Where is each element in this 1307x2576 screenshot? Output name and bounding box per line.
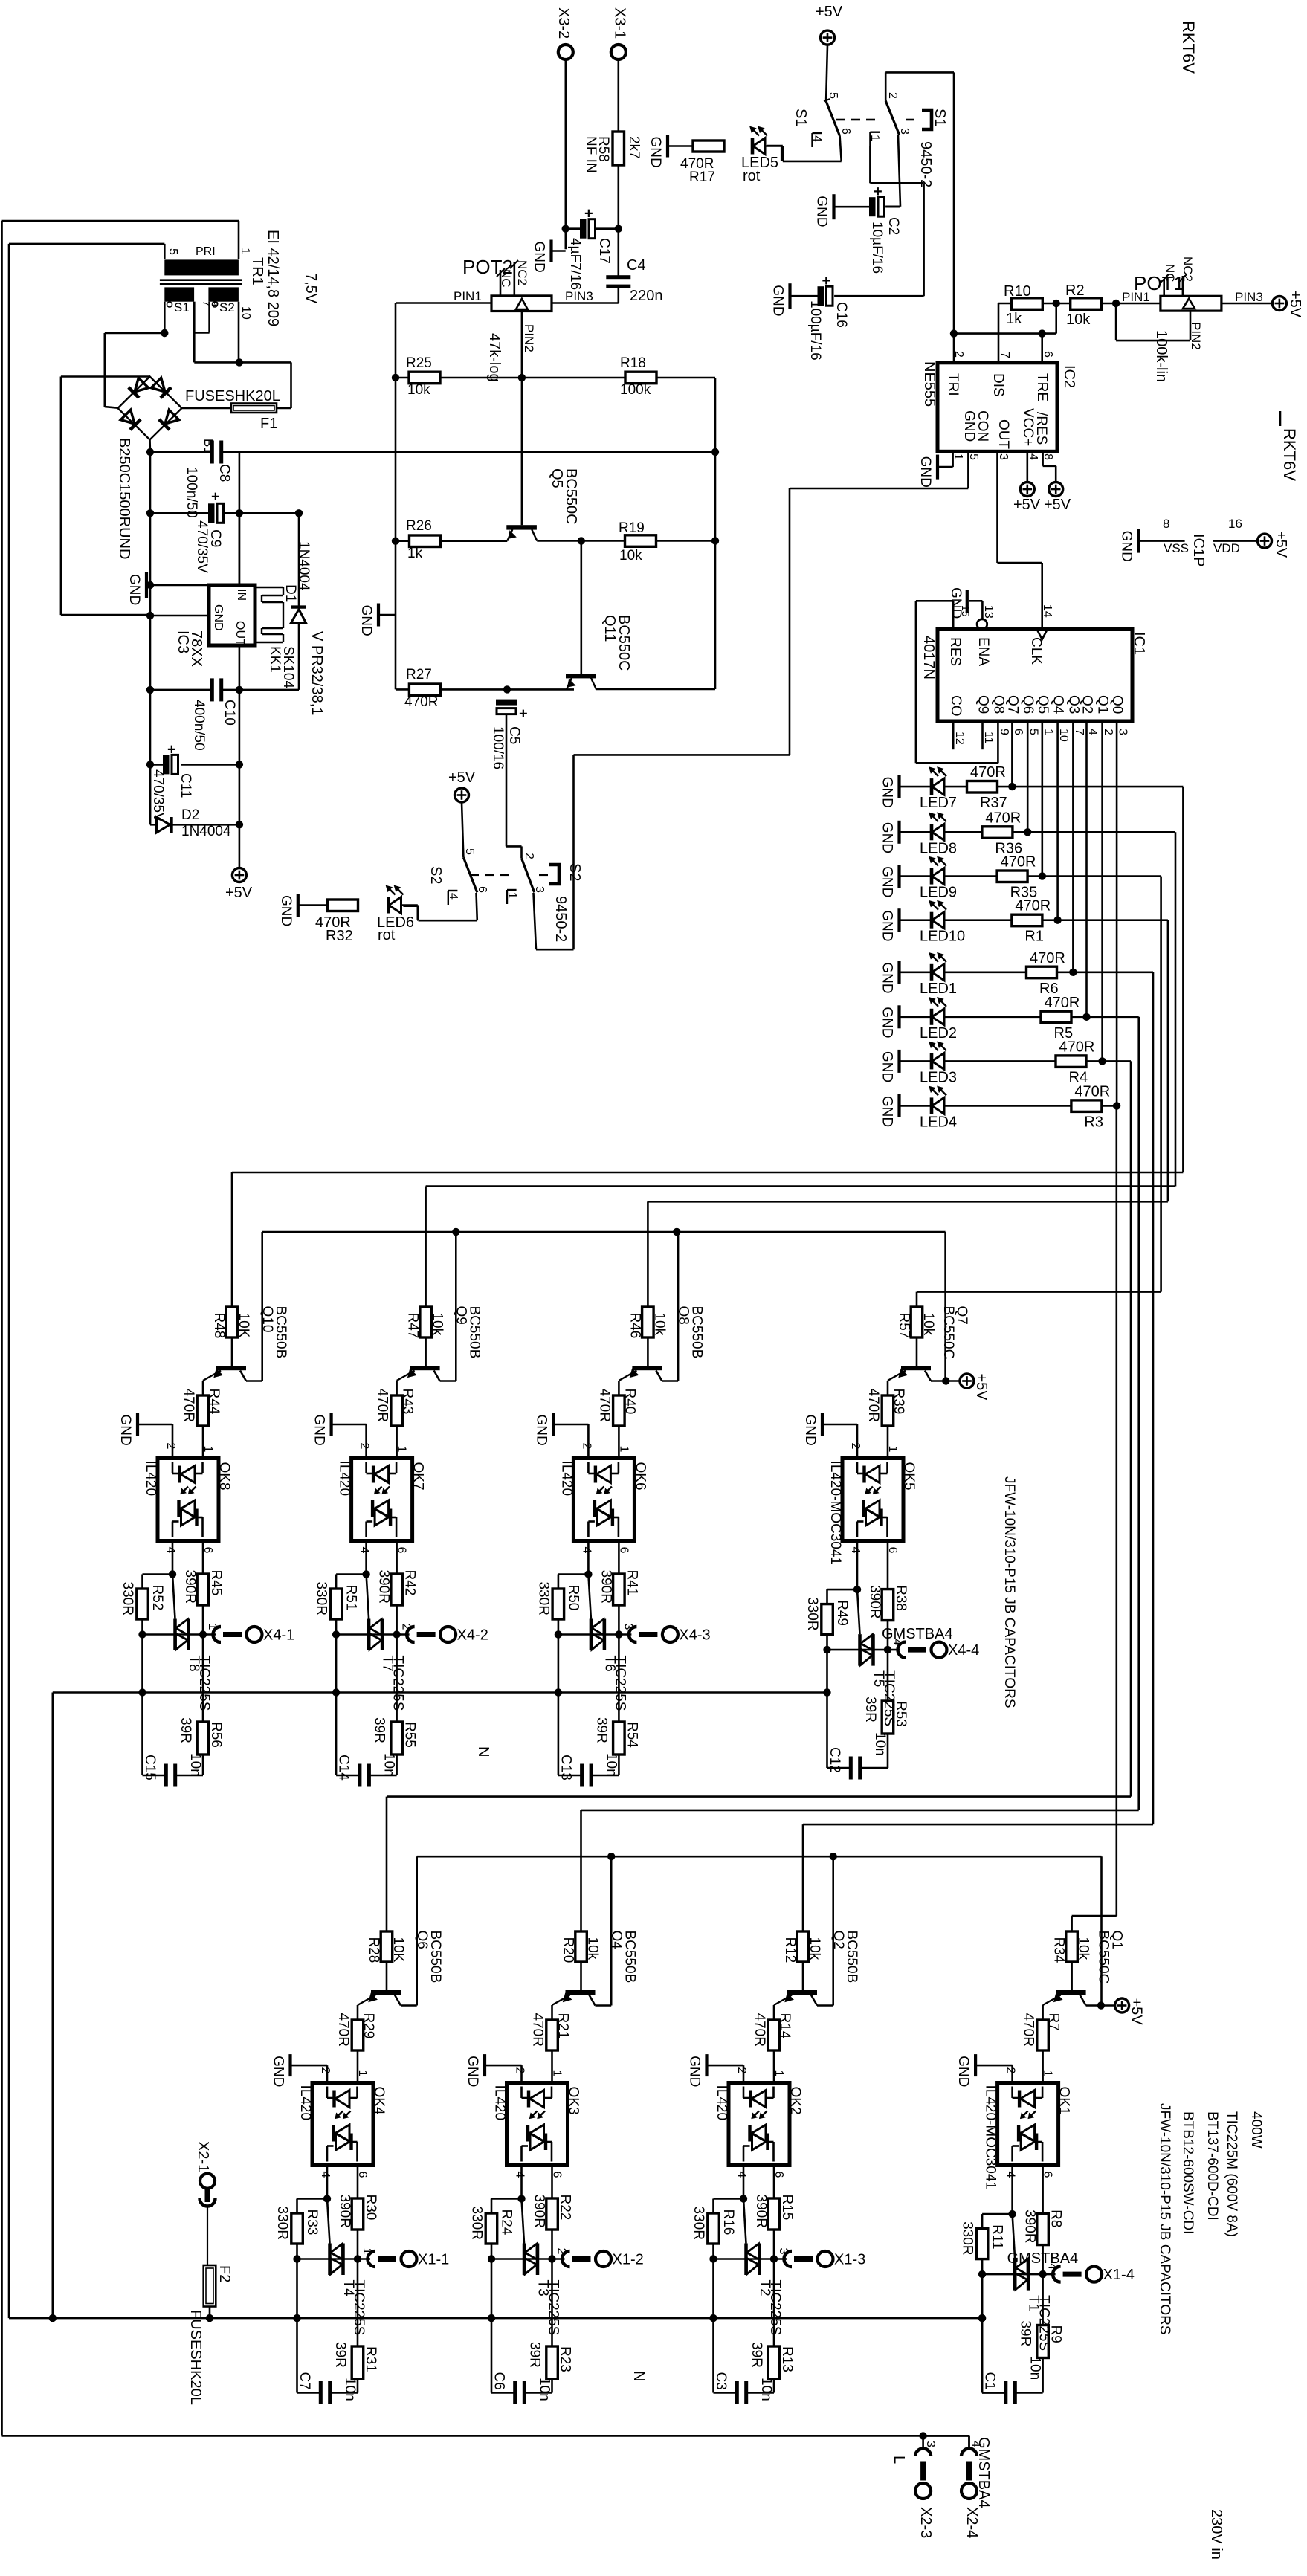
ground (549, 240, 552, 262)
svg-text:15: 15 (960, 605, 972, 617)
svg-text:5: 5 (167, 248, 179, 255)
resistor R22 390R (551, 2166, 553, 2199)
svg-text:GND: GND (770, 285, 786, 316)
optocoupler OK3 IL420 (507, 2083, 568, 2166)
svg-text:GND: GND (212, 604, 225, 631)
svg-text:10k: 10k (585, 1937, 601, 1960)
svg-text:330R: 330R (691, 2207, 706, 2240)
svg-text:10µF/16: 10µF/16 (869, 222, 885, 274)
svg-text:1: 1 (617, 1446, 630, 1453)
svg-text:2: 2 (164, 1443, 177, 1450)
svg-text:230V in: 230V in (1208, 2509, 1224, 2560)
svg-text:LED1: LED1 (920, 981, 957, 997)
svg-text:470R: 470R (530, 2013, 546, 2047)
resistor R24 330R (491, 2198, 522, 2200)
svg-text:330R: 330R (120, 1582, 135, 1615)
svg-text:2: 2 (1102, 729, 1114, 735)
triac T1 TIC225S (978, 2270, 986, 2278)
regulator IC3 78XX (150, 584, 209, 587)
svg-text:S1: S1 (793, 109, 809, 126)
ground (897, 1050, 900, 1073)
svg-text:1N4004: 1N4004 (296, 541, 312, 591)
resistor R7 470R (1037, 2020, 1049, 2050)
svg-text:R12: R12 (782, 1937, 798, 1963)
svg-text:10K: 10K (390, 1937, 406, 1963)
svg-text:BC550B: BC550B (467, 1306, 483, 1359)
ground (297, 894, 300, 917)
optocoupler OK7 IL420 (352, 1459, 413, 1541)
svg-text:1k: 1k (407, 546, 423, 561)
GND at IC2 pin1 (952, 452, 954, 468)
IC1 ENA inversion bubble + pin13 GND (977, 619, 987, 630)
switch S1 pole B (885, 71, 954, 74)
svg-text:R38: R38 (893, 1585, 909, 1611)
wire IC1 pin 6 (1011, 721, 1013, 787)
svg-text:C2: C2 (885, 217, 901, 235)
wire IC1 pin 5 (1027, 721, 1029, 832)
svg-text:C7: C7 (297, 2372, 312, 2390)
svg-text:GND: GND (532, 242, 547, 273)
resistor R45 390R (202, 1541, 204, 1575)
svg-text:2: 2 (1004, 2067, 1017, 2074)
diode D2 1N4004 (149, 764, 152, 824)
svg-text:39R: 39R (178, 1717, 193, 1743)
optocoupler OK8 IL420 (158, 1459, 219, 1541)
svg-text:R43: R43 (400, 1389, 416, 1415)
svg-text:rot: rot (378, 927, 396, 943)
svg-text:470R: 470R (865, 1389, 881, 1422)
resistor R19 10k (581, 540, 625, 542)
svg-text:X1-3: X1-3 (834, 2252, 865, 2268)
svg-text:470R: 470R (1059, 1039, 1095, 1055)
svg-text:10K: 10K (236, 1313, 251, 1338)
svg-text:C11: C11 (178, 773, 193, 798)
svg-text:X4-3: X4-3 (679, 1627, 710, 1644)
svg-text:C10: C10 (222, 700, 237, 726)
resistor R28 10k (381, 1931, 393, 1962)
svg-text:JFW-10N/310-P15 JB CAPACITORS: JFW-10N/310-P15 JB CAPACITORS (1157, 2103, 1172, 2335)
wire IC1 pin 10 (1056, 721, 1059, 920)
svg-text:39R: 39R (862, 1697, 878, 1723)
svg-text:9: 9 (998, 729, 1010, 735)
svg-text:Q3: Q3 (1065, 695, 1081, 714)
svg-text:GND: GND (533, 1415, 549, 1446)
svg-text:C1: C1 (982, 2372, 998, 2390)
svg-text:2: 2 (580, 1443, 593, 1450)
wire IC2 pin2 TRI (950, 329, 958, 337)
svg-text:NC: NC (499, 269, 513, 288)
svg-text:+5V: +5V (816, 4, 843, 20)
resistor R25 10k (392, 374, 399, 381)
svg-text:1: 1 (356, 2070, 369, 2077)
svg-text:TIC225M (600V 8A): TIC225M (600V 8A) (1224, 2111, 1239, 2237)
bus wire LED10 to channel3 R46 (1167, 920, 1169, 1202)
transistor Q8 BC550B (632, 1366, 662, 1370)
svg-text:R21: R21 (555, 2013, 571, 2039)
resistor R16 330R (714, 2198, 744, 2200)
svg-text:+: + (874, 184, 882, 200)
svg-text:R9: R9 (1048, 2325, 1064, 2343)
svg-text:NE555: NE555 (921, 361, 938, 407)
svg-text:GND: GND (955, 2056, 971, 2087)
optocoupler OK2 IL420 (729, 2083, 790, 2166)
wire R10/R2 junction to pin6 (1055, 303, 1057, 334)
capacitor C4 220n (606, 275, 630, 279)
svg-text:FUSESHK20L: FUSESHK20L (187, 2310, 204, 2405)
wire LED8 to bus x=1581.0 (1027, 831, 1175, 833)
svg-text:X4-4: X4-4 (948, 1642, 979, 1659)
collector bus middle band (262, 1231, 946, 1233)
svg-text:NC2: NC2 (1181, 256, 1195, 282)
wire LED2 to bus x=1531.7 (1087, 1016, 1139, 1019)
svg-text:S2: S2 (427, 866, 444, 884)
svg-text:R20: R20 (561, 1937, 576, 1963)
svg-text:R32: R32 (326, 928, 353, 944)
svg-text:X4-1: X4-1 (263, 1627, 294, 1644)
svg-text:4: 4 (1004, 2172, 1017, 2178)
svg-text:+5V: +5V (448, 769, 476, 786)
svg-text:330R: 330R (274, 2207, 290, 2240)
svg-text:390R: 390R (598, 1570, 613, 1604)
optocoupler OK5 IL420-MOC3041 (842, 1459, 903, 1541)
svg-text:R46: R46 (627, 1313, 642, 1339)
svg-text:39R: 39R (593, 1717, 609, 1743)
ground (897, 775, 900, 798)
svg-text:V PR32/38,1: V PR32/38,1 (309, 631, 325, 715)
svg-text:10k: 10k (807, 1937, 822, 1960)
svg-text:2: 2 (735, 2067, 748, 2074)
S2 unconnected pin 4 stub (448, 891, 449, 905)
svg-text:10k: 10k (1066, 311, 1091, 328)
svg-text:470R: 470R (375, 1389, 390, 1422)
svg-text:R3: R3 (1084, 1114, 1103, 1130)
svg-text:GND: GND (278, 895, 294, 926)
svg-text:LED8: LED8 (920, 840, 957, 856)
svg-text:4: 4 (447, 893, 459, 900)
svg-text:BC550B: BC550B (688, 1306, 704, 1359)
svg-text:VDD: VDD (1213, 541, 1240, 555)
svg-text:+: + (211, 488, 220, 505)
resistor R11 330R (982, 2213, 1013, 2215)
svg-text:10k: 10k (1076, 1937, 1091, 1960)
svg-text:4: 4 (580, 1547, 593, 1554)
svg-text:9: 9 (210, 301, 220, 306)
resistor R41 390R (618, 1541, 620, 1575)
svg-text:3: 3 (898, 128, 911, 135)
svg-text:C4: C4 (627, 257, 646, 274)
svg-text:3: 3 (533, 886, 546, 893)
heatsink KK1 (256, 587, 283, 588)
svg-text:GND: GND (117, 1415, 133, 1446)
svg-text:470/35V: 470/35V (150, 769, 166, 822)
svg-text:GND: GND (358, 605, 374, 636)
svg-text:IL420: IL420 (143, 1461, 158, 1497)
snubber R56 39R + C15 (202, 1635, 204, 1723)
S1 unconnected pin 4 stub (812, 0, 813, 1)
svg-text:Q5: Q5 (1035, 695, 1051, 714)
svg-text:39R: 39R (372, 1717, 387, 1743)
svg-text:10k: 10k (651, 1313, 667, 1336)
svg-text:R34: R34 (1051, 1937, 1067, 1963)
svg-text:OK3: OK3 (566, 2087, 581, 2115)
svg-text:PRI: PRI (196, 245, 216, 258)
svg-text:+: + (822, 273, 831, 289)
wire OK2 pin4 (743, 2166, 745, 2199)
capacitor C8 (146, 448, 154, 456)
wire TR1 pin5 to N bus (left border inner) (8, 244, 10, 2318)
snubber R13 39R + C3 (773, 2259, 775, 2347)
potentiometer POT1 100k-lin (1161, 296, 1222, 311)
svg-text:39R: 39R (527, 2342, 543, 2368)
resistor R2 10k (1056, 303, 1071, 305)
wire OK8 pin4 (172, 1541, 174, 1575)
resistor R43 470R (391, 1395, 403, 1426)
svg-text:390R: 390R (867, 1585, 882, 1618)
svg-text:4: 4 (164, 1547, 177, 1554)
svg-text:Q5: Q5 (549, 468, 565, 488)
+5V supply symbol (821, 30, 835, 45)
ground (897, 908, 900, 932)
resistor R29 470R (352, 2020, 364, 2050)
+5V supply symbol (1272, 297, 1286, 311)
snubber R53 39R + C12 (887, 1650, 889, 1701)
svg-text:4: 4 (849, 1547, 862, 1554)
svg-text:78XX: 78XX (188, 630, 204, 667)
svg-text:2: 2 (952, 351, 965, 358)
bus wire LED4 to channel8 R34 (1116, 1105, 1118, 1916)
svg-text:BTB12-600SW-CDI: BTB12-600SW-CDI (1180, 2111, 1195, 2234)
resistor R44 470R (197, 1395, 209, 1426)
svg-text:IL420: IL420 (558, 1461, 574, 1497)
svg-text:IL420: IL420 (297, 2085, 313, 2121)
svg-text:GND: GND (814, 196, 830, 227)
svg-text:VCC+: VCC+ (1020, 408, 1036, 446)
resistor R57 10k (911, 1307, 923, 1337)
svg-text:4: 4 (1027, 453, 1039, 460)
optocoupler OK4 IL420 (312, 2083, 373, 2166)
svg-text:IL420: IL420 (337, 1461, 352, 1497)
svg-text:R37: R37 (980, 795, 1007, 811)
svg-text:KK1: KK1 (267, 646, 283, 673)
svg-text:PIN3: PIN3 (1235, 290, 1263, 304)
snubber R9 39R + C1 (1042, 2274, 1044, 2325)
svg-text:470R: 470R (970, 764, 1006, 781)
IC1 RES pin15 loop to Q8 pin9 (952, 601, 955, 629)
svg-text:470R: 470R (752, 2013, 767, 2047)
svg-text:Q0: Q0 (1109, 695, 1125, 714)
svg-text:OK8: OK8 (216, 1462, 232, 1491)
svg-text:10n: 10n (603, 1753, 619, 1777)
svg-text:R23: R23 (558, 2346, 573, 2372)
svg-text:LED9: LED9 (920, 885, 957, 901)
svg-text:GND: GND (880, 1051, 895, 1082)
wire Q11 collector (596, 688, 715, 691)
wire OK5 pin4 (856, 1541, 859, 1590)
svg-text:BC550B: BC550B (622, 1931, 638, 1983)
svg-text:C8: C8 (216, 464, 232, 482)
svg-text:DIS: DIS (990, 373, 1006, 397)
ground (897, 1094, 900, 1117)
svg-text:IC1: IC1 (1131, 632, 1147, 655)
svg-text:R31: R31 (363, 2346, 378, 2372)
svg-text:2k7: 2k7 (626, 136, 642, 159)
svg-text:Q8: Q8 (990, 695, 1006, 714)
svg-text:+: + (167, 741, 176, 758)
wire IC1 pin 3 (1116, 721, 1118, 1105)
svg-text:390R: 390R (337, 2195, 352, 2228)
svg-text:GND: GND (880, 1007, 895, 1038)
transistor Q6 BC550B (371, 1990, 401, 1995)
svg-text:390R: 390R (182, 1570, 198, 1604)
svg-text:1: 1 (551, 2070, 564, 2077)
svg-text:IL420-MOC3041: IL420-MOC3041 (827, 1461, 843, 1565)
svg-text:Q9: Q9 (975, 695, 991, 714)
svg-text:IC2: IC2 (1061, 365, 1077, 388)
wire TR1 secondary pin6 to bridge (164, 302, 166, 333)
svg-text:N: N (475, 1746, 491, 1757)
svg-text:10k: 10k (619, 548, 642, 564)
svg-text:IC1P: IC1P (1190, 534, 1207, 566)
svg-text:470R: 470R (404, 694, 438, 710)
N bus middle band (53, 1691, 827, 1694)
svg-text:CLK: CLK (1028, 637, 1044, 665)
svg-text:GND: GND (917, 456, 933, 488)
svg-text:S2: S2 (219, 300, 235, 314)
svg-text:LED7: LED7 (920, 795, 957, 811)
svg-text:10: 10 (1057, 729, 1070, 742)
svg-text:TIC225S: TIC225S (196, 1656, 212, 1711)
+5V supply symbol (232, 868, 246, 882)
svg-text:R39: R39 (891, 1389, 906, 1415)
svg-text:R41: R41 (624, 1570, 639, 1596)
S1 pin1 wire to C16 (869, 146, 871, 183)
L line bottom (2, 2435, 969, 2437)
ground (330, 1413, 333, 1436)
svg-text:390R: 390R (532, 2195, 547, 2228)
svg-text:C14: C14 (336, 1755, 352, 1781)
svg-text:R55: R55 (402, 1722, 418, 1748)
bus wire LED2 to channel6 R21 (1137, 1017, 1140, 1810)
svg-text:R30: R30 (363, 2195, 378, 2221)
wire OK1 pin4 (1011, 2166, 1013, 2215)
svg-text:10k: 10k (920, 1313, 936, 1336)
svg-text:10n: 10n (342, 2378, 358, 2401)
svg-text:TR1: TR1 (249, 257, 265, 285)
svg-text:4017N: 4017N (920, 636, 937, 679)
svg-text:GND: GND (880, 910, 895, 941)
svg-text:+: + (584, 206, 593, 222)
svg-text:R19: R19 (619, 520, 645, 536)
svg-text:R53: R53 (893, 1701, 909, 1727)
bus wire LED8 to channel2 R47 (1175, 832, 1177, 1186)
IC1 4017N box (938, 630, 1132, 722)
svg-text:470R: 470R (181, 1389, 196, 1422)
svg-text:+5V: +5V (973, 1374, 990, 1401)
svg-text:R29: R29 (361, 2013, 376, 2039)
svg-text:11: 11 (982, 732, 995, 744)
svg-text:BC550C: BC550C (563, 468, 579, 525)
svg-text:GND: GND (312, 1415, 327, 1446)
svg-text:C16: C16 (833, 302, 849, 328)
resistor R47 10k (420, 1307, 432, 1337)
svg-text:IL420: IL420 (714, 2085, 729, 2121)
svg-text:4: 4 (810, 135, 823, 142)
bus wire LED7 to channel1 R48 (1182, 787, 1184, 1172)
resistor R50 330R (558, 1573, 589, 1575)
svg-text:GND: GND (880, 866, 895, 897)
svg-text:+5V: +5V (1044, 497, 1071, 513)
triac T6 TIC225S (555, 1630, 562, 1638)
resistor R14 470R (768, 2020, 780, 2050)
svg-text:10n: 10n (1027, 2357, 1043, 2380)
ground (788, 283, 791, 309)
wire C8 rail to +unreg (239, 451, 715, 453)
svg-text:R49: R49 (834, 1600, 850, 1626)
svg-text:R16: R16 (720, 2209, 736, 2236)
svg-text:47k-log: 47k-log (486, 333, 503, 382)
transistor Q5 BC550C (506, 525, 537, 529)
svg-text:BC550C: BC550C (1096, 1931, 1111, 1984)
svg-text:Q2: Q2 (1080, 695, 1095, 714)
optocoupler OK6 IL420 (573, 1459, 634, 1541)
svg-text:TIC225S: TIC225S (351, 2280, 367, 2336)
svg-text:R51: R51 (343, 1585, 359, 1611)
svg-text:1: 1 (1042, 2070, 1054, 2077)
bus wire LED9 to channel4 R57 (1160, 877, 1162, 1292)
svg-text:1: 1 (886, 1446, 899, 1453)
bridge rectifier B1 (118, 377, 182, 440)
svg-text:100k: 100k (620, 382, 651, 398)
S2 pin1 stub (506, 890, 508, 904)
resistor R42 390R (396, 1541, 398, 1575)
svg-text:470R: 470R (1021, 2013, 1036, 2047)
svg-text:5: 5 (463, 848, 476, 855)
svg-text:Q6: Q6 (1020, 695, 1036, 714)
resistor R39 470R (882, 1395, 894, 1426)
svg-text:OUT: OUT (233, 621, 246, 646)
svg-text:R2: R2 (1065, 283, 1085, 299)
svg-text:BT137-600D-CDI: BT137-600D-CDI (1204, 2111, 1220, 2221)
resistor R49 330R (827, 1589, 858, 1591)
svg-text:X3-1: X3-1 (612, 7, 628, 39)
svg-text:S1: S1 (174, 300, 190, 314)
+5V symbol main (239, 824, 241, 868)
N bus bottom band (9, 2317, 982, 2320)
wire OK7 pin4 (365, 1541, 367, 1575)
IC2 pin8 VCC to +5V (1042, 452, 1044, 466)
svg-text:2: 2 (358, 1443, 371, 1450)
svg-text:9450-2: 9450-2 (552, 896, 569, 942)
svg-text:2: 2 (886, 92, 899, 99)
svg-text:JFW-10N/310-P15 JB CAPACITORS: JFW-10N/310-P15 JB CAPACITORS (1001, 1476, 1017, 1708)
ground (832, 194, 835, 219)
svg-text:6: 6 (1012, 729, 1024, 735)
svg-text:R56: R56 (208, 1722, 224, 1748)
svg-text:R13: R13 (779, 2346, 795, 2372)
ground (897, 1005, 900, 1028)
ground (552, 1413, 555, 1436)
bus wire LED1 to channel7 R13 (1152, 972, 1155, 1824)
svg-text:1: 1 (868, 135, 881, 141)
svg-text:GND: GND (802, 1415, 818, 1446)
svg-text:5: 5 (827, 92, 839, 99)
svg-text:X2-1: X2-1 (195, 2141, 211, 2172)
svg-text:C17: C17 (596, 238, 612, 264)
svg-text:S1: S1 (932, 109, 948, 126)
svg-text:IL420: IL420 (492, 2085, 508, 2121)
svg-text:GND: GND (880, 962, 895, 993)
wire TR1 secondary pins 7/9 center (193, 302, 196, 333)
